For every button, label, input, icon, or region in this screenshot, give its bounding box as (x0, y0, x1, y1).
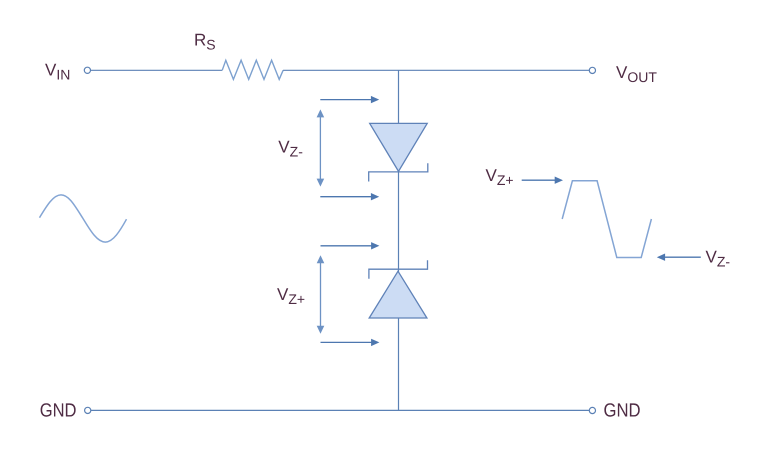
wire ground rail (91, 409, 589, 411)
zener diode D2 cathode bar (369, 260, 428, 279)
zener diode D2 body (369, 271, 427, 318)
svg-text:GND: GND (604, 401, 641, 422)
node GND left terminal (85, 407, 91, 413)
svg-text:VZ-: VZ- (278, 137, 303, 159)
svg-text:RS: RS (194, 30, 216, 52)
svg-text:VZ-: VZ- (706, 248, 731, 270)
svg-text:VZ+: VZ+ (486, 166, 514, 188)
node VOUT terminal (589, 67, 595, 73)
wire resistor to output (283, 69, 589, 71)
measure arrow VZ- span (317, 109, 325, 186)
arrow to clipped bottom (657, 254, 701, 261)
arrow current bottom upper (321, 242, 380, 249)
arrow current top upper (320, 96, 379, 103)
svg-text:VOUT: VOUT (616, 63, 657, 85)
wire input to resistor (91, 69, 223, 71)
input sine wave (40, 195, 127, 242)
wire vertical branch (398, 70, 400, 410)
resistor RS (222, 60, 283, 79)
zener diode D1 body (370, 123, 428, 171)
svg-text:GND: GND (40, 401, 77, 422)
svg-text:VIN: VIN (45, 61, 70, 83)
measure arrow VZ+ span (317, 255, 325, 334)
node GND right terminal (589, 407, 595, 413)
arrow to clipped top (522, 177, 563, 184)
zener diode D1 cathode bar (369, 163, 428, 181)
arrow current bottom lower (321, 339, 380, 346)
arrow current top lower (320, 193, 379, 200)
output clipped waveform (562, 181, 651, 258)
node VIN terminal (84, 67, 90, 73)
svg-text:VZ+: VZ+ (277, 285, 305, 307)
